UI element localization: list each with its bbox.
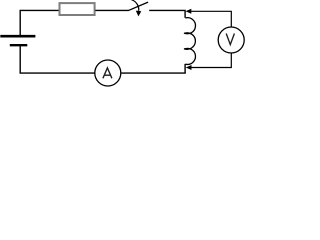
wire bottom-right horizontal: [121, 72, 186, 74]
battery B1 long plate: [0, 35, 35, 38]
inductor L coil (3 loops, bulge right): [184, 18, 195, 65]
battery B1 short plate: [10, 44, 28, 46]
voltmeter bottom arrowhead: [186, 65, 192, 70]
voltmeter V1 circle: [218, 27, 244, 53]
voltmeter label V: [226, 34, 234, 45]
wire switch to inductor corner: [149, 10, 185, 17]
wire resistor to switch: [95, 9, 128, 11]
voltmeter top arrowhead: [186, 9, 192, 14]
switch S blade: [128, 2, 148, 10]
voltmeter bottom wire with arrow: [190, 53, 232, 67]
ammeter A1 circle: [95, 60, 121, 86]
resistor R: [60, 3, 95, 15]
wire inductor bottom to corner: [184, 64, 186, 73]
voltmeter top wire with arrow: [190, 11, 232, 26]
switch closing arrowhead: [136, 11, 142, 17]
switch closing arrow curve: [131, 0, 138, 11]
wire top-left horizontal: [20, 9, 59, 11]
ammeter label A: [103, 68, 112, 79]
wire bottom-left horizontal: [20, 72, 95, 74]
wire left vertical upper: [19, 10, 21, 35]
wire left vertical lower: [19, 46, 21, 73]
